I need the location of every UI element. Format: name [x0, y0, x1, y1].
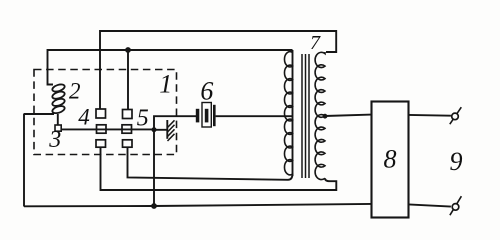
- wire vertical from main node to bottom bus: [153, 130, 155, 206]
- contact K5 bottom: [123, 140, 133, 147]
- node secondary tap dot: [323, 114, 328, 119]
- contact K4 middle: [97, 125, 107, 133]
- transformer T7 primary loops: [284, 52, 292, 175]
- contact K4 top: [96, 109, 106, 118]
- wire bottom bus: [24, 204, 372, 206]
- crystal X6 left wire plate: [196, 109, 200, 123]
- svg-text:8: 8: [384, 145, 397, 174]
- svg-text:2: 2: [69, 79, 81, 104]
- wire crystal to transformer primary: [216, 115, 293, 117]
- transformer T7 core: [302, 54, 309, 178]
- transformer T7 primary spine: [292, 50, 294, 176]
- svg-text:6: 6: [200, 77, 213, 106]
- contact K4 bottom: [96, 140, 106, 147]
- terminal top (circle with slash): [450, 107, 462, 124]
- wire to coil 2 bottom: [24, 113, 54, 115]
- wire amplifier to bottom terminal: [409, 204, 451, 206]
- wire primary bottom to contact column 5: [128, 147, 293, 180]
- transformer T7 secondary loops: [315, 52, 325, 180]
- node bottom junction dot: [151, 203, 157, 209]
- wire from node up to crystal: [154, 116, 196, 130]
- amplifier block 8: [372, 102, 409, 218]
- terminal bottom (circle with slash): [450, 196, 462, 215]
- node junction dot on second bus: [125, 47, 131, 53]
- contact K3: [55, 125, 61, 131]
- wire drop to contact column 4: [99, 30, 101, 110]
- dashed enclosure box 1: [34, 70, 177, 155]
- coil L2 (electromagnet winding): [51, 83, 65, 114]
- svg-text:4: 4: [78, 105, 90, 130]
- crystal X6 inner electrode: [205, 109, 209, 123]
- svg-text:9: 9: [450, 147, 463, 176]
- wire node to wall anchor: [154, 129, 167, 131]
- wire contact bar through middle contacts: [61, 128, 154, 130]
- wire stub coil to contact 3: [57, 114, 59, 125]
- svg-text:5: 5: [137, 105, 149, 131]
- wire secondary bottom return to contact column 4: [101, 147, 337, 190]
- wire second bus to transformer primary top: [48, 49, 293, 51]
- node main junction dot: [152, 127, 157, 132]
- svg-text:3: 3: [48, 127, 61, 153]
- wall anchor (hatched support): [167, 120, 174, 141]
- wire top bus from node above contacts to transformer secondary top: [100, 31, 336, 52]
- wire feed to coil 2: [48, 49, 54, 85]
- wire amplifier to top terminal: [409, 114, 451, 117]
- wire drop to contact column 5: [127, 50, 129, 110]
- contact K5 top: [123, 110, 133, 119]
- contact K5 middle: [122, 125, 132, 133]
- crystal X6 body rectangle: [202, 103, 211, 128]
- svg-text:1: 1: [159, 69, 172, 98]
- svg-text:7: 7: [310, 32, 321, 54]
- wire left bus vertical: [23, 114, 25, 207]
- wire secondary tap to amplifier 8: [325, 115, 372, 116]
- crystal X6 right plate: [213, 105, 216, 126]
